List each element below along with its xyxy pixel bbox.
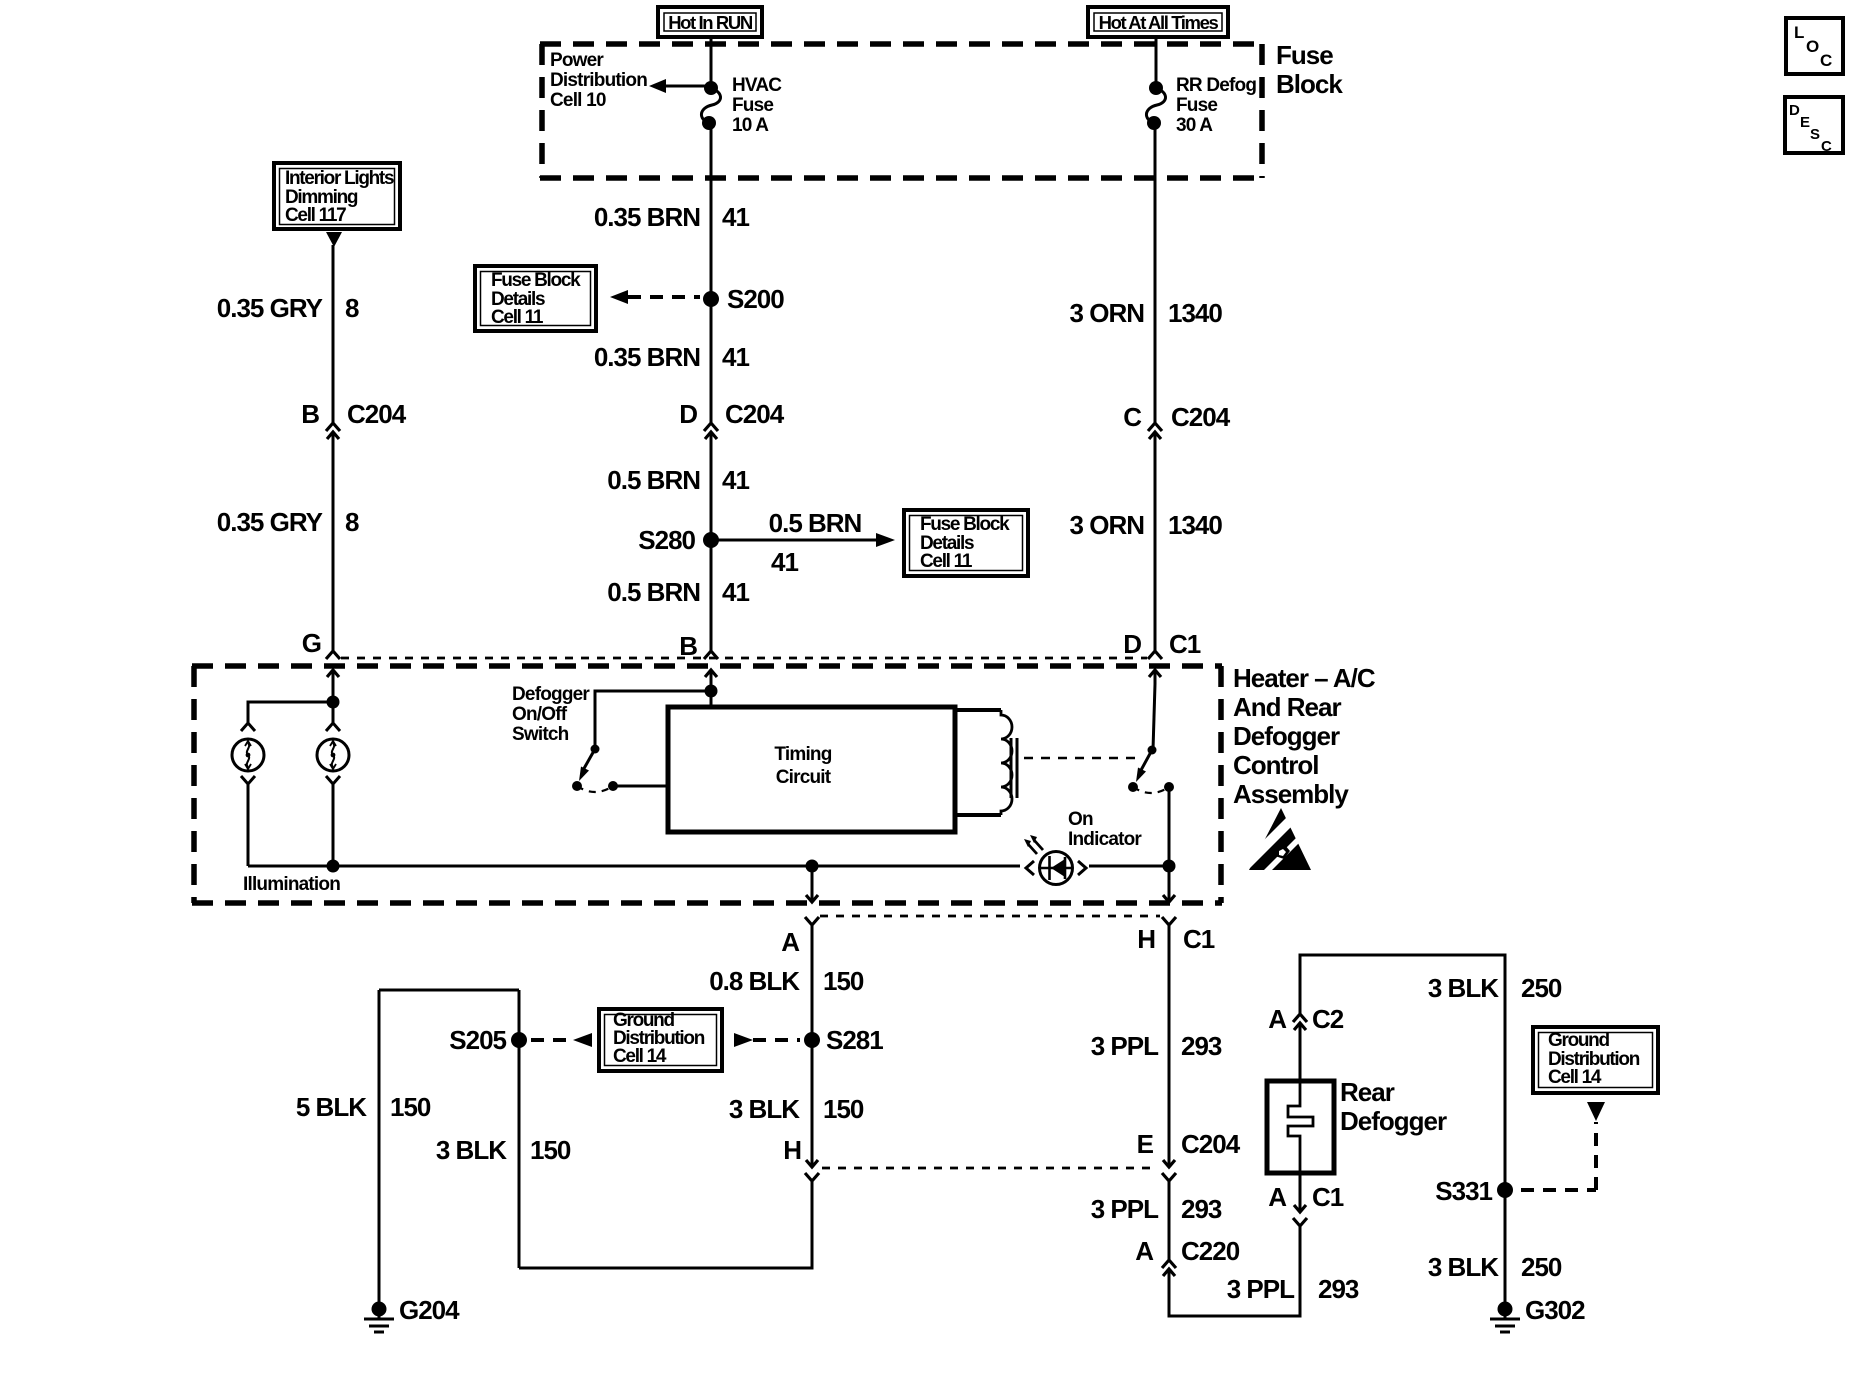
svg-text:293: 293 xyxy=(1181,1194,1222,1224)
svg-text:S280: S280 xyxy=(638,525,695,555)
wire right lamp down xyxy=(332,784,335,866)
svg-text:G204: G204 xyxy=(399,1295,460,1325)
svg-text:C220: C220 xyxy=(1181,1236,1240,1266)
Fuse Block Details Cell 11 box (lower) xyxy=(904,510,1028,576)
svg-text:1340: 1340 xyxy=(1168,510,1222,540)
svg-text:150: 150 xyxy=(823,966,864,996)
wire branch to left lamp xyxy=(248,702,333,723)
svg-text:0.5 BRN: 0.5 BRN xyxy=(769,508,862,538)
LOC button xyxy=(1786,18,1843,74)
connector D C1 xyxy=(1123,629,1201,684)
svg-text:41: 41 xyxy=(722,577,749,607)
wire label 3 PPL 293 (upper) xyxy=(1091,1031,1222,1061)
svg-text:3 BLK: 3 BLK xyxy=(436,1135,507,1165)
wire LED to relay wire xyxy=(1089,865,1169,868)
svg-text:S: S xyxy=(1810,126,1820,143)
svg-text:RR Defog: RR Defog xyxy=(1176,75,1256,96)
connector A C1 (defogger) xyxy=(1268,1182,1344,1226)
svg-text:O: O xyxy=(1806,37,1819,56)
svg-text:0.35 GRY: 0.35 GRY xyxy=(217,507,323,537)
svg-text:293: 293 xyxy=(1181,1031,1222,1061)
svg-text:0.5 BRN: 0.5 BRN xyxy=(607,465,700,495)
svg-text:3 ORN: 3 ORN xyxy=(1070,510,1145,540)
wire label 3 ORN 1340 xyxy=(1070,510,1223,540)
DESC button xyxy=(1785,97,1843,155)
svg-text:B: B xyxy=(679,631,697,661)
svg-text:On/Off: On/Off xyxy=(512,704,568,725)
svg-text:Cell 11: Cell 11 xyxy=(920,551,973,572)
svg-text:C1: C1 xyxy=(1312,1182,1344,1212)
node LED junction xyxy=(1163,860,1176,873)
svg-text:Defogger: Defogger xyxy=(1233,721,1340,751)
splice S200 xyxy=(703,284,784,314)
svg-text:3 PPL: 3 PPL xyxy=(1227,1274,1295,1304)
svg-text:S281: S281 xyxy=(826,1025,883,1055)
wire defogger bottom xyxy=(1299,1173,1302,1199)
wire label 3 ORN 1340 xyxy=(1070,298,1223,328)
svg-text:H: H xyxy=(1137,924,1155,954)
wire H branch down xyxy=(1168,866,1171,901)
svg-text:3 BLK: 3 BLK xyxy=(1428,973,1499,1003)
svg-text:D: D xyxy=(1123,629,1141,659)
svg-text:C: C xyxy=(1123,402,1142,432)
connector E C204 xyxy=(1137,1129,1241,1181)
svg-text:3 PPL: 3 PPL xyxy=(1091,1194,1159,1224)
connector row bottom (dotted) xyxy=(820,915,1160,918)
svg-text:1340: 1340 xyxy=(1168,298,1222,328)
wire S281 to H xyxy=(811,1040,814,1155)
svg-text:41: 41 xyxy=(722,342,749,372)
connector A C220 xyxy=(1135,1236,1239,1283)
svg-text:A: A xyxy=(781,927,800,957)
wire C C204 to D C1 xyxy=(1154,446,1157,651)
svg-text:3 BLK: 3 BLK xyxy=(1428,1252,1499,1282)
wire label 3 BLK 150 (S281) xyxy=(729,1094,864,1124)
svg-text:Fuse: Fuse xyxy=(732,95,773,116)
svg-text:And Rear: And Rear xyxy=(1233,692,1341,722)
node A branch xyxy=(806,860,819,873)
node lamp branch xyxy=(327,696,340,709)
wire label 0.35 GRY 8 xyxy=(217,293,359,323)
svg-text:On: On xyxy=(1068,809,1093,830)
wire label 3 BLK 150 (S205) xyxy=(436,1135,571,1165)
wire D C1 to relay contact xyxy=(1153,684,1155,750)
RR Defog fuse F2 xyxy=(1146,81,1165,130)
wire S280 to B xyxy=(710,540,713,651)
Hot At All Times box xyxy=(1088,7,1228,37)
wire label 0.35 BRN 41 xyxy=(594,342,750,372)
svg-text:Fuse: Fuse xyxy=(1176,95,1217,116)
svg-text:B: B xyxy=(301,399,319,429)
left illumination lamp xyxy=(232,723,264,784)
wire Hot In RUN to HVAC fuse xyxy=(710,36,713,88)
svg-text:Cell 14: Cell 14 xyxy=(613,1046,667,1067)
wire branch to switch xyxy=(595,691,711,749)
Fuse Block Details Cell 11 box (upper) xyxy=(475,266,596,331)
svg-text:3 ORN: 3 ORN xyxy=(1070,298,1145,328)
svg-text:5 BLK: 5 BLK xyxy=(296,1092,367,1122)
HVAC fuse value label xyxy=(732,75,782,136)
LED on indicator xyxy=(1024,835,1073,885)
svg-text:A: A xyxy=(1268,1004,1287,1034)
relay contact switch xyxy=(1128,746,1174,794)
wire RR fuse to C C204 xyxy=(1154,123,1157,423)
svg-text:G302: G302 xyxy=(1525,1295,1585,1325)
rear defogger grid element xyxy=(1267,1077,1447,1173)
ESD symbol xyxy=(1241,808,1311,875)
svg-text:0.35 BRN: 0.35 BRN xyxy=(594,342,700,372)
node switch branch xyxy=(705,685,718,698)
connector B (assembly) xyxy=(679,631,718,684)
svg-text:Defogger: Defogger xyxy=(512,684,590,705)
wire label 3 BLK 250 (upper) xyxy=(1428,973,1562,1003)
connector A C2 xyxy=(1268,1004,1344,1037)
control assembly dashed border xyxy=(192,666,1222,903)
splice S281 xyxy=(804,1025,883,1055)
dashed arrow Ground Distribution to S205 xyxy=(531,1033,592,1047)
svg-text:S200: S200 xyxy=(727,284,784,314)
svg-text:30 A: 30 A xyxy=(1176,115,1213,136)
relay coil K1 xyxy=(955,710,1017,815)
HVAC fuse F1 xyxy=(701,81,720,130)
svg-text:Assembly: Assembly xyxy=(1233,779,1349,809)
svg-text:8: 8 xyxy=(345,293,359,323)
Interior Lights Dimming Cell 117 box xyxy=(274,163,400,229)
wire label 0.5 BRN 41 xyxy=(607,577,749,607)
wire A to S281 xyxy=(811,925,814,1155)
wire E to A C220 xyxy=(1168,1181,1171,1260)
svg-text:G: G xyxy=(302,628,321,658)
svg-text:C204: C204 xyxy=(347,399,407,429)
wire HVAC fuse to S200 xyxy=(710,123,713,299)
svg-text:C204: C204 xyxy=(1171,402,1231,432)
svg-text:H: H xyxy=(783,1135,801,1165)
svg-text:S205: S205 xyxy=(449,1025,506,1055)
Heater A/C label xyxy=(1233,663,1376,809)
svg-text:C: C xyxy=(1820,51,1832,70)
svg-text:Control: Control xyxy=(1233,750,1318,780)
wire label 3 PPL 293 (lower) xyxy=(1227,1274,1359,1304)
wire G204 vertical xyxy=(378,990,381,1303)
svg-text:C2: C2 xyxy=(1312,1004,1344,1034)
svg-text:Circuit: Circuit xyxy=(776,767,832,788)
svg-text:Cell 11: Cell 11 xyxy=(491,307,544,328)
svg-text:Switch: Switch xyxy=(512,724,569,745)
wire G to lamp branch xyxy=(332,684,335,702)
svg-text:C1: C1 xyxy=(1169,629,1201,659)
wire left lamp down xyxy=(247,784,250,866)
svg-text:Indicator: Indicator xyxy=(1068,829,1142,850)
wire A branch down xyxy=(811,866,814,901)
svg-text:0.35 GRY: 0.35 GRY xyxy=(217,293,323,323)
arrow S280 to Fuse Block Details xyxy=(711,508,895,577)
svg-text:250: 250 xyxy=(1521,973,1562,1003)
svg-text:A: A xyxy=(1135,1236,1154,1266)
Power Distribution Cell 10 label xyxy=(550,50,647,111)
svg-text:D: D xyxy=(1789,102,1800,119)
wire label 0.8 BLK 150 xyxy=(709,966,864,996)
splice S331 xyxy=(1435,1176,1513,1206)
dashed arrow S200 to Fuse Block Details xyxy=(610,290,700,304)
wire C204 to S280 xyxy=(710,446,713,540)
dashed arrow Ground Distribution to S281 xyxy=(734,1033,800,1047)
svg-text:293: 293 xyxy=(1318,1274,1359,1304)
Timing Circuit U1 xyxy=(668,707,955,832)
svg-text:Power: Power xyxy=(550,50,604,71)
Hot In RUN box xyxy=(658,7,762,37)
svg-text:150: 150 xyxy=(530,1135,571,1165)
ground G302 xyxy=(1490,1295,1585,1332)
svg-text:C: C xyxy=(1821,138,1832,155)
svg-text:3 PPL: 3 PPL xyxy=(1091,1031,1159,1061)
wire relay to H xyxy=(1168,787,1171,866)
svg-text:41: 41 xyxy=(771,547,798,577)
connector B C204 xyxy=(301,399,406,446)
On Indicator label xyxy=(1068,809,1142,850)
wire to right lamp xyxy=(332,702,335,723)
wire label 0.5 BRN 41 xyxy=(607,465,749,495)
connector C C204 xyxy=(1123,402,1230,446)
svg-text:Heater – A/C: Heater – A/C xyxy=(1233,663,1376,693)
wire Hot At All Times to RR Defog fuse xyxy=(1155,36,1158,88)
svg-text:Hot At All Times: Hot At All Times xyxy=(1099,12,1219,33)
svg-text:Cell 117: Cell 117 xyxy=(285,205,346,226)
arrow to Power Distribution xyxy=(649,79,711,93)
connector A (assembly) xyxy=(781,917,819,957)
svg-text:E: E xyxy=(1137,1129,1154,1159)
wire Interior Lights to B C204 xyxy=(332,245,335,423)
illumination bus wire xyxy=(248,865,1020,868)
dashed relay link xyxy=(1024,757,1136,760)
svg-text:0.5 BRN: 0.5 BRN xyxy=(607,577,700,607)
connector H C1 (assembly) xyxy=(1137,917,1215,954)
svg-text:Fuse Block: Fuse Block xyxy=(920,514,1010,535)
svg-text:0.8 BLK: 0.8 BLK xyxy=(709,966,800,996)
Fuse Block label xyxy=(1276,40,1343,99)
svg-text:Distribution: Distribution xyxy=(550,70,647,91)
wire label 0.35 BRN 41 xyxy=(594,202,750,232)
svg-text:10 A: 10 A xyxy=(732,115,769,136)
svg-text:3 BLK: 3 BLK xyxy=(729,1094,800,1124)
svg-text:250: 250 xyxy=(1521,1252,1562,1282)
svg-text:8: 8 xyxy=(345,507,359,537)
svg-text:41: 41 xyxy=(722,202,749,232)
svg-text:A: A xyxy=(1268,1182,1287,1212)
wire C220 loop to defogger xyxy=(1169,1225,1300,1316)
fuse block dashed border xyxy=(540,44,1264,178)
Defogger On/Off Switch label xyxy=(512,684,590,745)
wire S205 loop top xyxy=(379,989,519,992)
svg-text:Block: Block xyxy=(1276,69,1343,99)
svg-text:Fuse: Fuse xyxy=(1276,40,1333,70)
wire S205 vertical xyxy=(518,990,521,1268)
splice S280 xyxy=(638,525,719,555)
wire defogger feed loop xyxy=(1300,955,1505,1190)
node illumination junction xyxy=(327,860,340,873)
wire S331 to G302 xyxy=(1504,1190,1507,1303)
svg-text:E: E xyxy=(1800,114,1810,131)
svg-text:Interior Lights: Interior Lights xyxy=(285,168,394,189)
svg-text:D: D xyxy=(679,399,697,429)
svg-text:Fuse Block: Fuse Block xyxy=(491,270,581,291)
svg-text:HVAC: HVAC xyxy=(732,75,782,96)
svg-text:C1: C1 xyxy=(1183,924,1215,954)
wire label 3 PPL 293 (middle) xyxy=(1091,1194,1222,1224)
svg-text:Ground: Ground xyxy=(1548,1030,1609,1051)
connector G xyxy=(302,628,340,684)
svg-text:L: L xyxy=(1794,23,1804,42)
svg-text:Illumination: Illumination xyxy=(243,874,340,895)
wire label 5 BLK 150 xyxy=(296,1092,431,1122)
Ground Distribution Cell 14 box (left) xyxy=(599,1009,722,1071)
wire label 3 BLK 250 (lower) xyxy=(1428,1252,1562,1282)
RR Defog fuse value label xyxy=(1176,75,1256,136)
dashed arrow S331 to Ground Distribution xyxy=(1521,1102,1605,1190)
wire defogger top xyxy=(1299,1037,1302,1081)
ground G204 xyxy=(364,1295,460,1332)
svg-text:41: 41 xyxy=(722,465,749,495)
svg-text:Hot In RUN: Hot In RUN xyxy=(668,12,753,33)
connector row C1/C204 top (dotted) xyxy=(341,657,1147,660)
svg-text:150: 150 xyxy=(823,1094,864,1124)
Ground Distribution Cell 14 box (right) xyxy=(1533,1027,1658,1093)
wire H to loop bottom xyxy=(519,1181,812,1268)
connector D C204 xyxy=(679,399,784,446)
arrow into Interior Lights box xyxy=(326,232,342,247)
wire H C1 to E C204 xyxy=(1168,925,1171,1155)
wire label 0.35 GRY 8 xyxy=(217,507,359,537)
wire B C204 to G xyxy=(332,446,335,651)
wire B to switch branch xyxy=(710,684,713,707)
svg-text:Cell 10: Cell 10 xyxy=(550,90,606,111)
splice S205 xyxy=(449,1025,527,1055)
connector H C204 xyxy=(783,1135,819,1181)
svg-text:0.35 BRN: 0.35 BRN xyxy=(594,202,700,232)
svg-text:Cell 14: Cell 14 xyxy=(1548,1067,1602,1088)
defogger on/off switch xyxy=(572,745,668,793)
wire S200 to C204 xyxy=(710,299,713,423)
svg-text:S331: S331 xyxy=(1435,1176,1492,1206)
right illumination lamp xyxy=(317,723,349,784)
svg-text:Rear: Rear xyxy=(1340,1077,1395,1107)
svg-text:C204: C204 xyxy=(1181,1129,1241,1159)
svg-text:Timing: Timing xyxy=(774,744,831,765)
dashed link H to E xyxy=(822,1167,1158,1170)
svg-text:C204: C204 xyxy=(725,399,785,429)
svg-text:Defogger: Defogger xyxy=(1340,1106,1447,1136)
svg-text:150: 150 xyxy=(390,1092,431,1122)
